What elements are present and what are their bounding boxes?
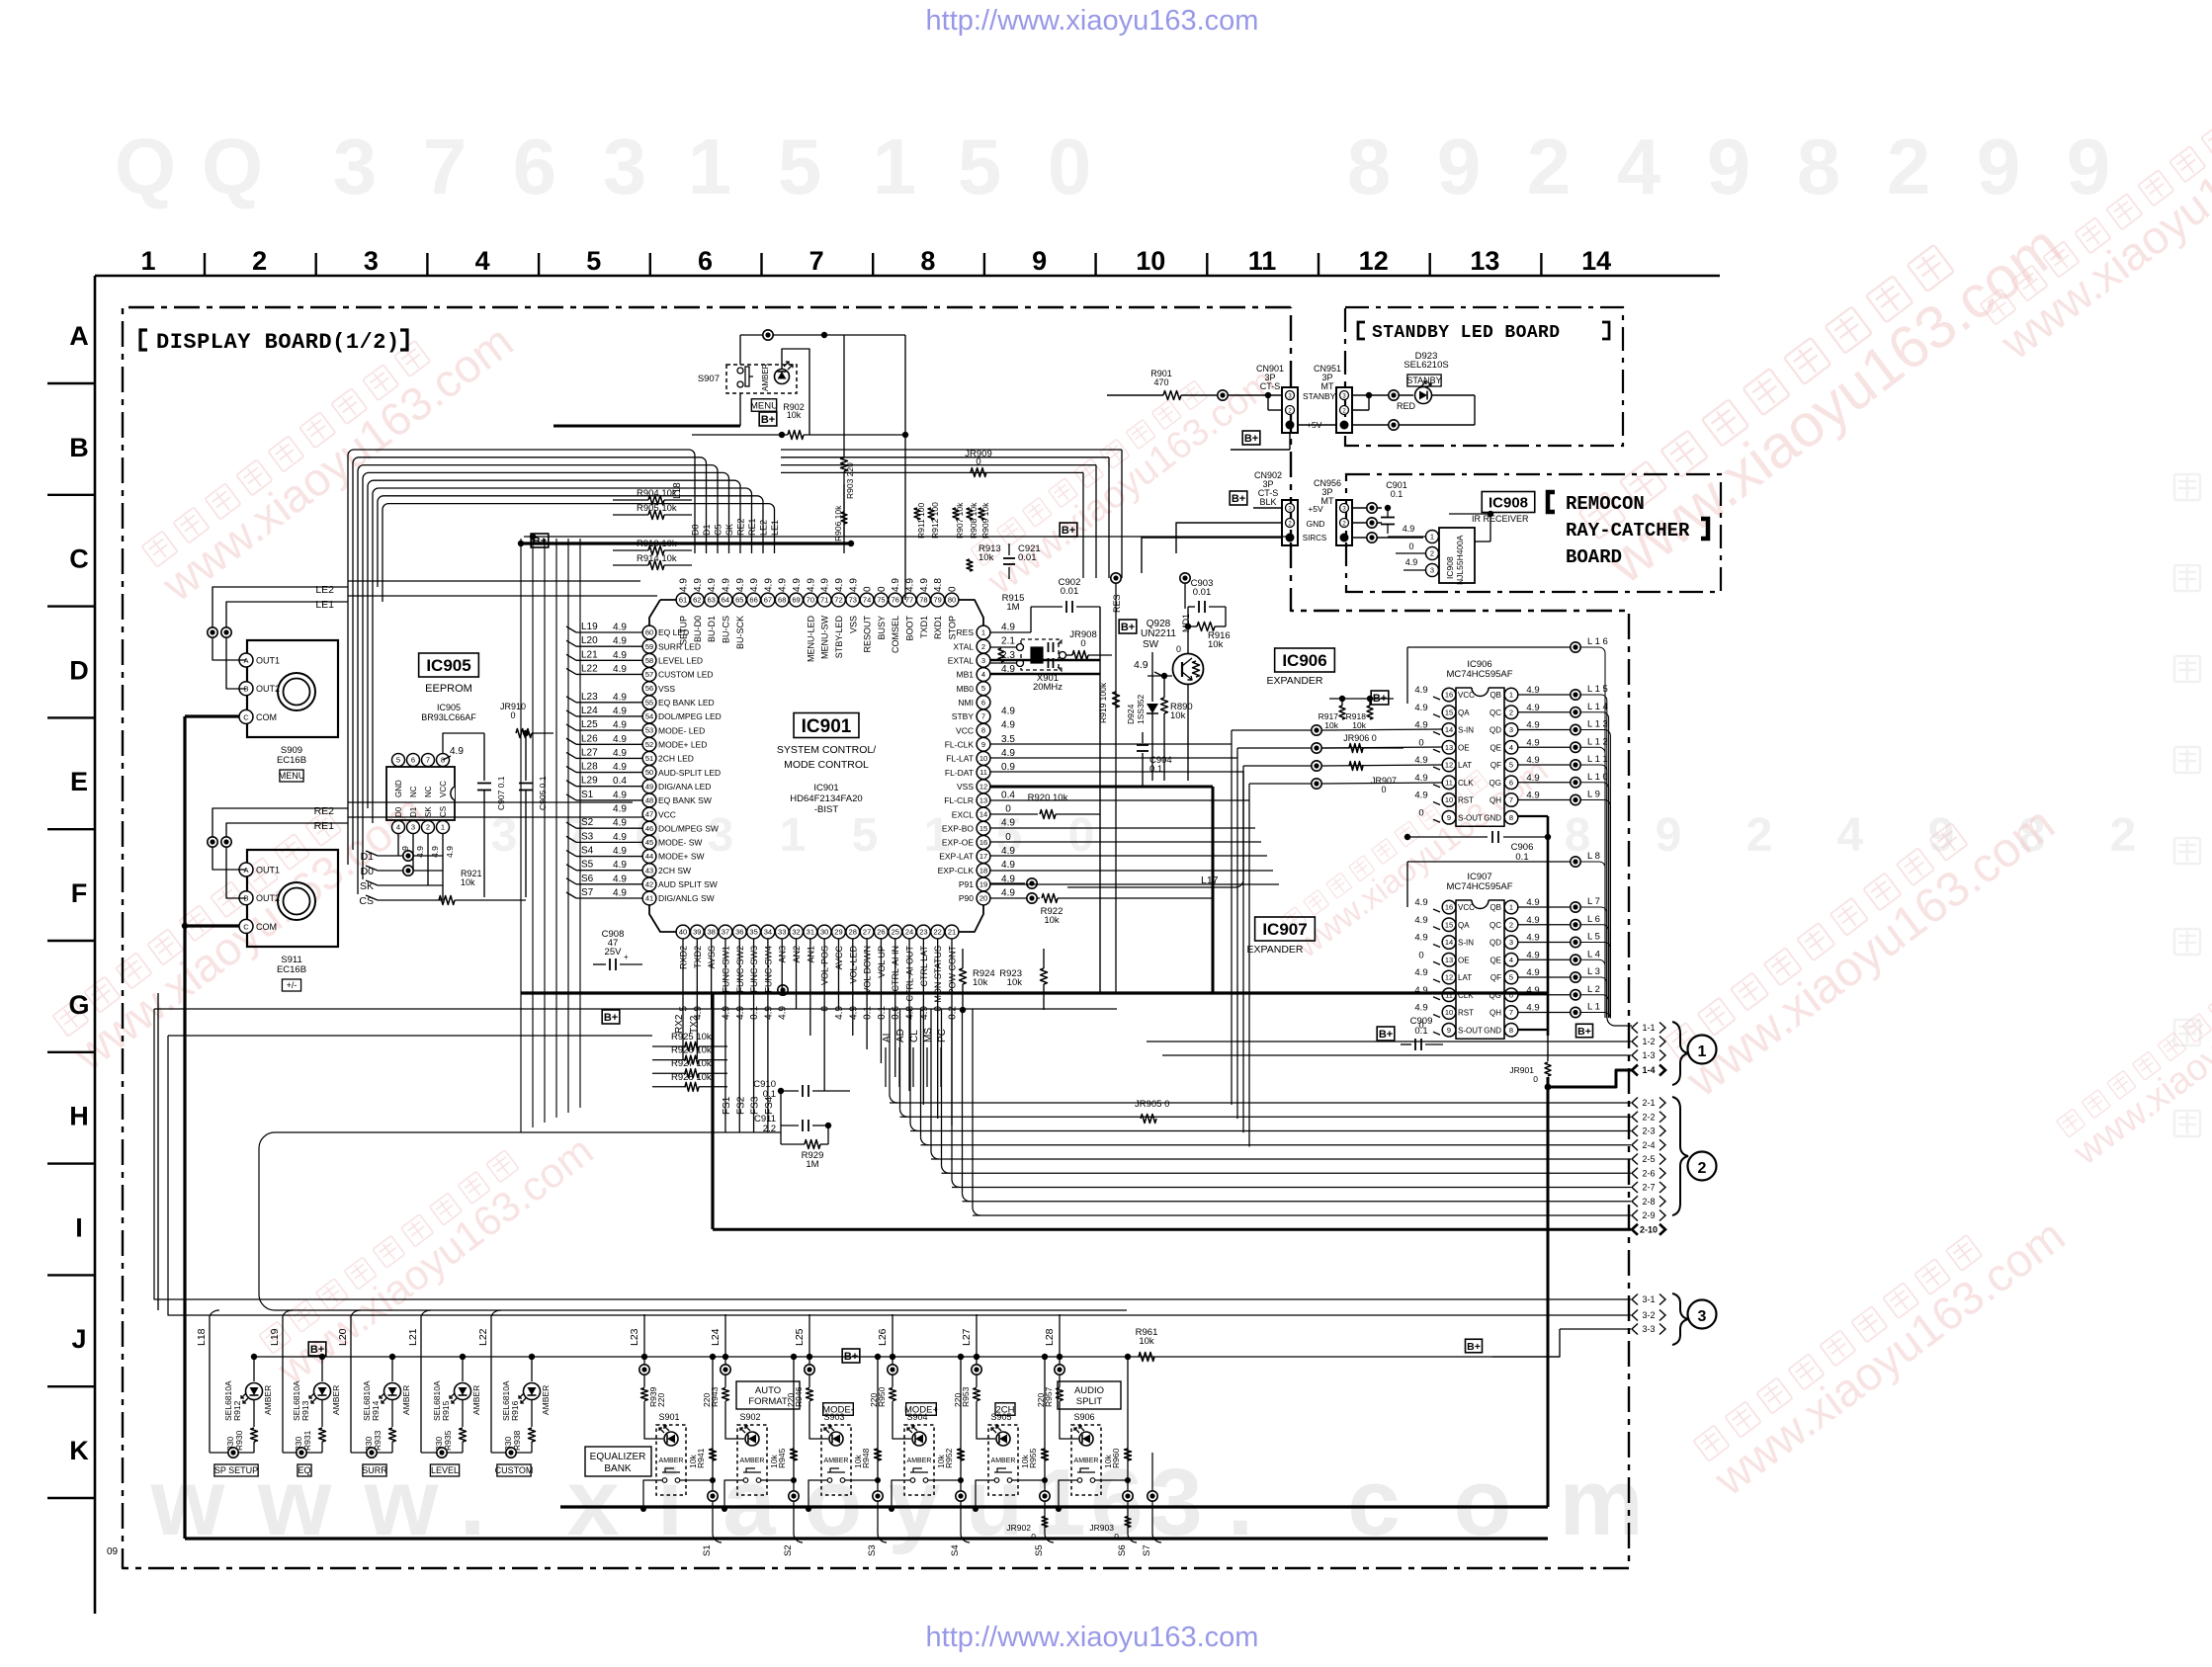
left low horizontals — [154, 1008, 1117, 1010]
svg-text:AUD-SPLIT LED: AUD-SPLIT LED — [658, 768, 721, 778]
IC901 label — [794, 713, 859, 738]
svg-text:4.9: 4.9 — [613, 636, 627, 647]
b+ label bottom1 — [308, 1342, 326, 1356]
svg-text:4.9: 4.9 — [1001, 860, 1015, 871]
wire encoder S911 B net RE1 — [226, 823, 348, 898]
bottom pin drop wires — [682, 939, 684, 1059]
svg-text:L20: L20 — [337, 1328, 349, 1346]
svg-text:CUSTOM: CUSTOM — [495, 1465, 534, 1475]
resistor R923 10k — [1041, 968, 1048, 984]
svg-text:S7: S7 — [581, 887, 594, 898]
svg-text:54: 54 — [645, 712, 653, 721]
svg-text:MODE CONTROL: MODE CONTROL — [784, 759, 869, 771]
svg-text:10k: 10k — [1139, 1336, 1154, 1347]
svg-text:10k: 10k — [936, 1455, 946, 1468]
svg-text:14: 14 — [979, 810, 987, 819]
wire L20 return — [351, 1452, 392, 1454]
standby led board title — [1358, 322, 1365, 339]
svg-text:2-5: 2-5 — [1642, 1154, 1655, 1164]
svg-text:EXP-CLK: EXP-CLK — [938, 866, 975, 875]
svg-text:12: 12 — [979, 782, 987, 791]
svg-text:1: 1 — [873, 123, 917, 210]
svg-text:SW: SW — [1143, 639, 1159, 650]
svg-text:BU-CS: BU-CS — [721, 616, 730, 643]
svg-text:COM: COM — [256, 922, 277, 932]
IC901 left pins — [642, 625, 656, 639]
svg-text:AMBER: AMBER — [1074, 1458, 1099, 1464]
svg-text:2-3: 2-3 — [1642, 1126, 1655, 1136]
svg-text:8: 8 — [1509, 813, 1513, 822]
svg-text:66: 66 — [749, 596, 757, 605]
svg-text:AMBER: AMBER — [991, 1458, 1016, 1464]
IC906 gnd wire — [1518, 815, 1548, 817]
s907 wires top — [740, 334, 905, 336]
terminals P91 P90 — [1027, 878, 1037, 888]
svg-text:QA: QA — [1458, 921, 1470, 930]
svg-text:9: 9 — [981, 740, 985, 749]
svg-text:53: 53 — [645, 726, 653, 735]
svg-text:79: 79 — [934, 596, 942, 605]
svg-text:71: 71 — [820, 596, 828, 605]
svg-text:4.9: 4.9 — [891, 578, 901, 592]
svg-text:1: 1 — [780, 809, 807, 862]
svg-text:LE1: LE1 — [315, 599, 334, 611]
svg-text:28: 28 — [849, 928, 857, 937]
svg-text:0: 0 — [1381, 785, 1386, 794]
terminal top2 — [1180, 573, 1190, 583]
display board outline — [123, 307, 1629, 1568]
svg-text:4.9: 4.9 — [1414, 685, 1427, 696]
svg-text:VCC: VCC — [956, 725, 974, 735]
svg-text:4.9: 4.9 — [721, 578, 731, 592]
svg-text:S903: S903 — [823, 1412, 844, 1422]
svg-text:EC16B: EC16B — [277, 755, 306, 766]
svg-text:2: 2 — [1527, 123, 1572, 210]
wire L22 return — [491, 1452, 532, 1454]
svg-text:34: 34 — [764, 928, 772, 937]
watermark ghost digits middle row — [491, 809, 2137, 862]
svg-text:B+: B+ — [1577, 1026, 1591, 1038]
wire +5V — [1298, 424, 1336, 426]
svg-text:EXPANDER: EXPANDER — [1247, 944, 1304, 956]
label MODE- — [823, 1403, 854, 1416]
wire s907 stem — [904, 335, 906, 600]
watermark ghost digits top row — [115, 123, 2110, 210]
connector arrow 2-6 — [1632, 1168, 1638, 1179]
svg-text:B+: B+ — [1232, 493, 1245, 505]
svg-text:LAT: LAT — [1458, 761, 1472, 770]
svg-text:10k: 10k — [461, 877, 475, 887]
svg-text:4.9: 4.9 — [1001, 623, 1015, 633]
svg-text:12: 12 — [1445, 761, 1453, 770]
svg-text:SEL6810A: SEL6810A — [362, 1380, 372, 1421]
svg-text:L25: L25 — [581, 719, 598, 730]
svg-text:0.4: 0.4 — [613, 776, 627, 787]
svg-text:QF: QF — [1490, 761, 1501, 770]
svg-text:1: 1 — [688, 123, 732, 210]
wire L18 return — [210, 1452, 254, 1454]
svg-text:9: 9 — [2067, 123, 2111, 210]
svg-text:S3: S3 — [581, 831, 594, 842]
svg-text:GND: GND — [394, 780, 403, 797]
terminal CUSTOM — [506, 1448, 516, 1458]
svg-text:D1: D1 — [702, 524, 712, 536]
watermark stamp — [1976, 52, 2212, 370]
svg-text:AUDIO: AUDIO — [1074, 1385, 1104, 1396]
svg-text:QC: QC — [1489, 708, 1501, 717]
svg-text:L 2: L 2 — [1587, 984, 1600, 995]
connector arrow 1-4 — [1632, 1065, 1638, 1076]
svg-text:6: 6 — [513, 123, 557, 210]
wire res pin1 — [990, 631, 1031, 633]
svg-text:UN2211: UN2211 — [1141, 628, 1176, 639]
led indicator L19 EQ — [319, 1354, 325, 1360]
svg-text:HD64F2134FA20: HD64F2134FA20 — [790, 793, 862, 804]
svg-text:MC74HC595AF: MC74HC595AF — [1446, 881, 1512, 892]
svg-text:7: 7 — [1509, 795, 1513, 804]
svg-text:EQ: EQ — [298, 1465, 310, 1475]
svg-text:0: 0 — [948, 586, 959, 592]
resistor R922 10k — [990, 897, 1040, 899]
svg-text:MENU-SW: MENU-SW — [820, 616, 830, 659]
svg-text:14: 14 — [1581, 246, 1611, 276]
label AUTO FORMAT — [736, 1381, 800, 1409]
svg-text:MODE+ SW: MODE+ SW — [658, 852, 705, 862]
svg-text:MB1: MB1 — [957, 670, 975, 680]
svg-text:QD: QD — [1489, 726, 1501, 735]
brace group 2 — [1672, 1097, 1688, 1215]
svg-text:0.4: 0.4 — [1001, 790, 1015, 800]
svg-text:Q: Q — [202, 123, 263, 210]
connector arrow 2-10 — [1632, 1224, 1638, 1235]
svg-text:S3: S3 — [867, 1544, 878, 1556]
long verticals between IC901 and IC906 — [1231, 730, 1233, 1105]
svg-text:S-OUT: S-OUT — [1458, 1026, 1483, 1035]
connector arrow 2-4 — [1632, 1139, 1638, 1150]
top bundle nets from left side — [348, 450, 695, 865]
connector arrow 3-2 — [1632, 1310, 1638, 1321]
svg-text:4.9: 4.9 — [613, 623, 627, 633]
svg-text:LE2: LE2 — [759, 520, 769, 536]
svg-text:S7: S7 — [1142, 1544, 1152, 1556]
svg-text:EXP-BO: EXP-BO — [942, 823, 975, 833]
connector arrow 2-1 — [1632, 1098, 1638, 1109]
svg-text:4.9: 4.9 — [613, 706, 627, 716]
svg-text:2-4: 2-4 — [1642, 1140, 1655, 1150]
svg-text:B+: B+ — [1379, 1029, 1393, 1041]
wires left of IC901 to encoders — [348, 582, 695, 584]
svg-text:D1: D1 — [409, 806, 418, 817]
wire drop S905 led net — [976, 1314, 978, 1387]
svg-text:B+: B+ — [1121, 622, 1135, 633]
svg-text:10k: 10k — [973, 977, 988, 988]
svg-text:1: 1 — [140, 246, 155, 276]
svg-text:10k: 10k — [787, 410, 802, 420]
svg-text:L21: L21 — [581, 649, 598, 660]
wire net 3-2 long — [168, 1036, 1631, 1315]
svg-text:10: 10 — [1136, 246, 1165, 276]
wire S903 contacts — [808, 1480, 827, 1509]
svg-text:0: 0 — [1533, 1074, 1538, 1084]
svg-text:0: 0 — [1080, 638, 1085, 649]
svg-text:40: 40 — [679, 928, 687, 937]
svg-text:4.9: 4.9 — [1405, 557, 1418, 567]
svg-text:3: 3 — [708, 809, 734, 862]
svg-text:3: 3 — [603, 123, 647, 210]
svg-text:SYSTEM CONTROL/: SYSTEM CONTROL/ — [777, 744, 876, 756]
IC905 top pins — [392, 754, 405, 767]
svg-text:10k: 10k — [1007, 977, 1023, 988]
svg-text:+/-: +/- — [287, 980, 298, 990]
svg-text:L21: L21 — [407, 1328, 419, 1346]
svg-text:220: 220 — [953, 1393, 963, 1407]
svg-text:8: 8 — [1797, 123, 1841, 210]
svg-text:COMSEL: COMSEL — [891, 616, 900, 653]
wire L21 return — [421, 1452, 463, 1454]
svg-text:4.9: 4.9 — [450, 746, 464, 757]
svg-text:10k: 10k — [1020, 1455, 1030, 1468]
svg-text:CS: CS — [439, 806, 448, 817]
svg-text:BU-D1: BU-D1 — [707, 616, 717, 642]
svg-text:MENU: MENU — [279, 771, 305, 781]
svg-text:L27: L27 — [961, 1328, 973, 1346]
svg-text:BANK: BANK — [604, 1463, 632, 1474]
svg-text:F: F — [71, 878, 88, 908]
svg-text:3: 3 — [411, 823, 415, 832]
wire MD1 vertical — [1184, 584, 1186, 609]
svg-text:B+: B+ — [1062, 525, 1075, 537]
svg-text:4.9: 4.9 — [749, 578, 760, 592]
svg-text:MC74HC595AF: MC74HC595AF — [1446, 669, 1512, 680]
watermark stamp — [967, 343, 1283, 604]
svg-text:TXD1: TXD1 — [919, 616, 929, 638]
svg-text:10k: 10k — [769, 1455, 779, 1468]
svg-text:4.9: 4.9 — [613, 762, 627, 773]
svg-text:R928 10k: R928 10k — [671, 1072, 712, 1083]
connector arrow 2-8 — [1632, 1196, 1638, 1207]
svg-text:4.9: 4.9 — [613, 720, 627, 731]
connector arrow 3-3 — [1632, 1324, 1638, 1335]
watermark stamp — [48, 764, 434, 1081]
sense column S904 — [960, 1357, 962, 1490]
wire eeprom pins down — [397, 834, 399, 856]
svg-text:46: 46 — [645, 824, 653, 833]
svg-text:0: 0 — [1176, 644, 1181, 654]
svg-text:11: 11 — [1248, 246, 1277, 276]
watermark stamp — [1573, 185, 2074, 597]
IC901 outline — [649, 600, 983, 932]
wire IC905 vcc — [443, 733, 484, 753]
svg-text:C: C — [69, 544, 89, 574]
IC901 right pins — [977, 625, 990, 639]
svg-text:14: 14 — [1445, 938, 1453, 947]
svg-text:4.9: 4.9 — [1414, 897, 1427, 908]
IC905 chip body — [386, 767, 455, 820]
svg-text:47: 47 — [645, 810, 653, 819]
b+ label cn902 — [1230, 491, 1247, 505]
b+ label y543 — [1060, 523, 1077, 537]
svg-text:21: 21 — [948, 928, 956, 937]
vertical bundle left of IC901 — [520, 539, 522, 1132]
S7 sense line — [1151, 1453, 1153, 1534]
svg-text:QC: QC — [1489, 921, 1501, 930]
svg-text:9: 9 — [1437, 123, 1482, 210]
connector arrow 3-1 — [1632, 1294, 1638, 1305]
svg-text:4.9: 4.9 — [613, 790, 627, 800]
svg-text:AMBER: AMBER — [471, 1385, 481, 1415]
big rounded box around bottom — [259, 1132, 1127, 1310]
svg-text:EQUALIZER: EQUALIZER — [590, 1452, 646, 1462]
svg-text:4: 4 — [981, 670, 985, 679]
svg-text:3: 3 — [981, 656, 985, 665]
svg-text:GND: GND — [1484, 1026, 1501, 1035]
svg-text:10k: 10k — [853, 1455, 863, 1468]
svg-text:FS3: FS3 — [750, 1096, 761, 1115]
svg-text:IC908: IC908 — [1489, 494, 1528, 511]
svg-text:MD1: MD1 — [1181, 614, 1191, 632]
IC907 label — [1255, 917, 1316, 941]
svg-text:2-9: 2-9 — [1642, 1210, 1655, 1220]
svg-text:6: 6 — [1509, 778, 1513, 787]
svg-text:L 1: L 1 — [1587, 1002, 1600, 1013]
svg-text:5: 5 — [981, 684, 985, 693]
svg-text:RXD1: RXD1 — [933, 616, 943, 639]
svg-text:4.9: 4.9 — [848, 578, 859, 592]
svg-text:B+: B+ — [761, 414, 775, 426]
bottom bold bus — [185, 1537, 1548, 1540]
svg-text:4.9: 4.9 — [1001, 720, 1015, 731]
sense column S905 — [1044, 1357, 1046, 1490]
crystal X901 circuit — [1021, 639, 1059, 670]
svg-text:60: 60 — [645, 628, 653, 637]
svg-text:32: 32 — [792, 928, 800, 937]
svg-text:0: 0 — [1048, 123, 1092, 210]
svg-text:NC: NC — [424, 786, 433, 797]
svg-text:CT-S: CT-S — [1260, 381, 1281, 391]
svg-text:RES: RES — [957, 627, 975, 637]
standby led board outline — [1345, 307, 1623, 446]
svg-text:5: 5 — [958, 123, 1002, 210]
svg-text:73: 73 — [849, 596, 857, 605]
svg-text:MENU-LED: MENU-LED — [806, 616, 815, 663]
ruler top line — [95, 275, 1720, 278]
wire S906 contacts — [1059, 1480, 1077, 1509]
svg-text:SEL6210S: SEL6210S — [1404, 360, 1448, 371]
svg-text:MB0: MB0 — [957, 684, 975, 694]
svg-text:L 1 6: L 1 6 — [1587, 636, 1608, 647]
svg-text:0: 0 — [976, 457, 980, 467]
svg-text:1-3: 1-3 — [1642, 1050, 1655, 1060]
svg-text:0.1: 0.1 — [863, 1006, 874, 1020]
svg-text:0.1: 0.1 — [763, 1089, 776, 1100]
svg-text:4.9: 4.9 — [613, 818, 627, 829]
svg-text:4.9: 4.9 — [848, 1006, 859, 1020]
svg-text:SEL6810A: SEL6810A — [223, 1380, 233, 1421]
svg-text:22: 22 — [934, 928, 942, 937]
svg-text:2: 2 — [2110, 809, 2137, 862]
svg-text:10k: 10k — [688, 1455, 698, 1468]
svg-text:IC907: IC907 — [1262, 920, 1307, 939]
svg-text:0: 0 — [1005, 804, 1011, 815]
svg-text:0.01: 0.01 — [1018, 552, 1037, 563]
svg-text:4.9: 4.9 — [735, 1006, 746, 1020]
svg-text:MENU: MENU — [750, 400, 778, 411]
svg-text:14: 14 — [1445, 725, 1453, 734]
svg-text:57: 57 — [645, 670, 653, 679]
svg-text:AD: AD — [895, 1029, 906, 1042]
svg-text:FL-CLK: FL-CLK — [945, 739, 975, 749]
svg-text:7: 7 — [426, 756, 430, 765]
connector arrow 2-9 — [1632, 1210, 1638, 1221]
svg-text:+5V: +5V — [1308, 504, 1323, 514]
wire x1113 — [1099, 607, 1101, 993]
svg-text:B+: B+ — [844, 1351, 858, 1363]
svg-text:2: 2 — [1887, 123, 1931, 210]
svg-text:77: 77 — [905, 596, 913, 605]
svg-text:10k: 10k — [978, 552, 994, 563]
svg-text:2-8: 2-8 — [1642, 1197, 1655, 1207]
svg-text:SK: SK — [424, 806, 433, 817]
svg-text:4.9: 4.9 — [1001, 888, 1015, 899]
svg-text:VSS: VSS — [658, 684, 675, 694]
svg-text:XTAL: XTAL — [953, 641, 974, 651]
svg-text:LEVEL: LEVEL — [431, 1465, 459, 1475]
svg-text:R912: R912 — [232, 1400, 242, 1421]
IC907 body — [1456, 900, 1504, 1039]
svg-text:JR901: JR901 — [1509, 1065, 1534, 1075]
svg-text:3-3: 3-3 — [1642, 1324, 1655, 1334]
svg-text:10: 10 — [979, 754, 987, 763]
wire r903 stem — [843, 335, 845, 458]
rotary encoder S909 — [247, 640, 338, 737]
svg-text:L22: L22 — [581, 663, 598, 674]
svg-text:1M: 1M — [806, 1159, 818, 1170]
svg-text:L26: L26 — [581, 733, 598, 744]
svg-text:3-2: 3-2 — [1642, 1310, 1655, 1320]
top bus lines to right side — [781, 449, 1122, 451]
svg-text:1: 1 — [1509, 691, 1513, 700]
svg-text:5: 5 — [852, 809, 879, 862]
svg-text:2-1: 2-1 — [1642, 1098, 1655, 1108]
svg-text:4.9: 4.9 — [1414, 933, 1427, 944]
svg-text:S5: S5 — [1034, 1544, 1045, 1556]
svg-text:FL-CLR: FL-CLR — [944, 795, 974, 805]
IC907 gnd wire — [1518, 1029, 1548, 1031]
svg-text:2CH LED: 2CH LED — [658, 754, 694, 764]
svg-text:L 9: L 9 — [1587, 790, 1600, 800]
bold bus x721 — [711, 993, 714, 1229]
svg-text:15: 15 — [1445, 708, 1453, 716]
svg-text:QF: QF — [1490, 973, 1501, 982]
svg-text:QB: QB — [1489, 903, 1501, 912]
wire drop S901 led net — [643, 1314, 645, 1387]
svg-text:2: 2 — [981, 642, 985, 651]
svg-text:9: 9 — [1447, 813, 1451, 822]
wire L19 return — [283, 1452, 322, 1454]
svg-text:0: 0 — [510, 710, 515, 720]
svg-text:G: G — [68, 990, 89, 1020]
svg-text:1: 1 — [1430, 533, 1434, 542]
svg-text:9: 9 — [1032, 246, 1047, 276]
svg-text:IC901: IC901 — [802, 716, 852, 737]
svg-text:0: 0 — [877, 586, 888, 592]
svg-text:FL-DAT: FL-DAT — [945, 768, 974, 778]
svg-text:RST: RST — [1458, 796, 1474, 805]
svg-text:0.1: 0.1 — [749, 1006, 760, 1020]
svg-text:L20: L20 — [581, 635, 598, 646]
svg-text:4.9: 4.9 — [735, 578, 746, 592]
svg-text:4.9: 4.9 — [1414, 967, 1427, 978]
